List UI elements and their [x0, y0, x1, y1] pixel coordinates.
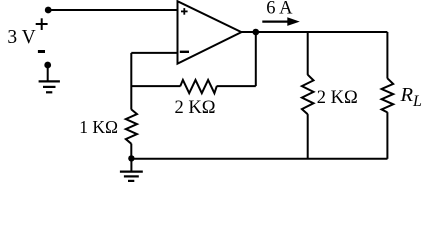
svg-text:1 KΩ: 1 KΩ [79, 117, 118, 137]
svg-text:6 A: 6 A [266, 0, 293, 19]
svg-text:3 V: 3 V [7, 27, 35, 48]
svg-text:2 KΩ: 2 KΩ [175, 98, 216, 118]
svg-text:2 KΩ: 2 KΩ [317, 88, 358, 108]
